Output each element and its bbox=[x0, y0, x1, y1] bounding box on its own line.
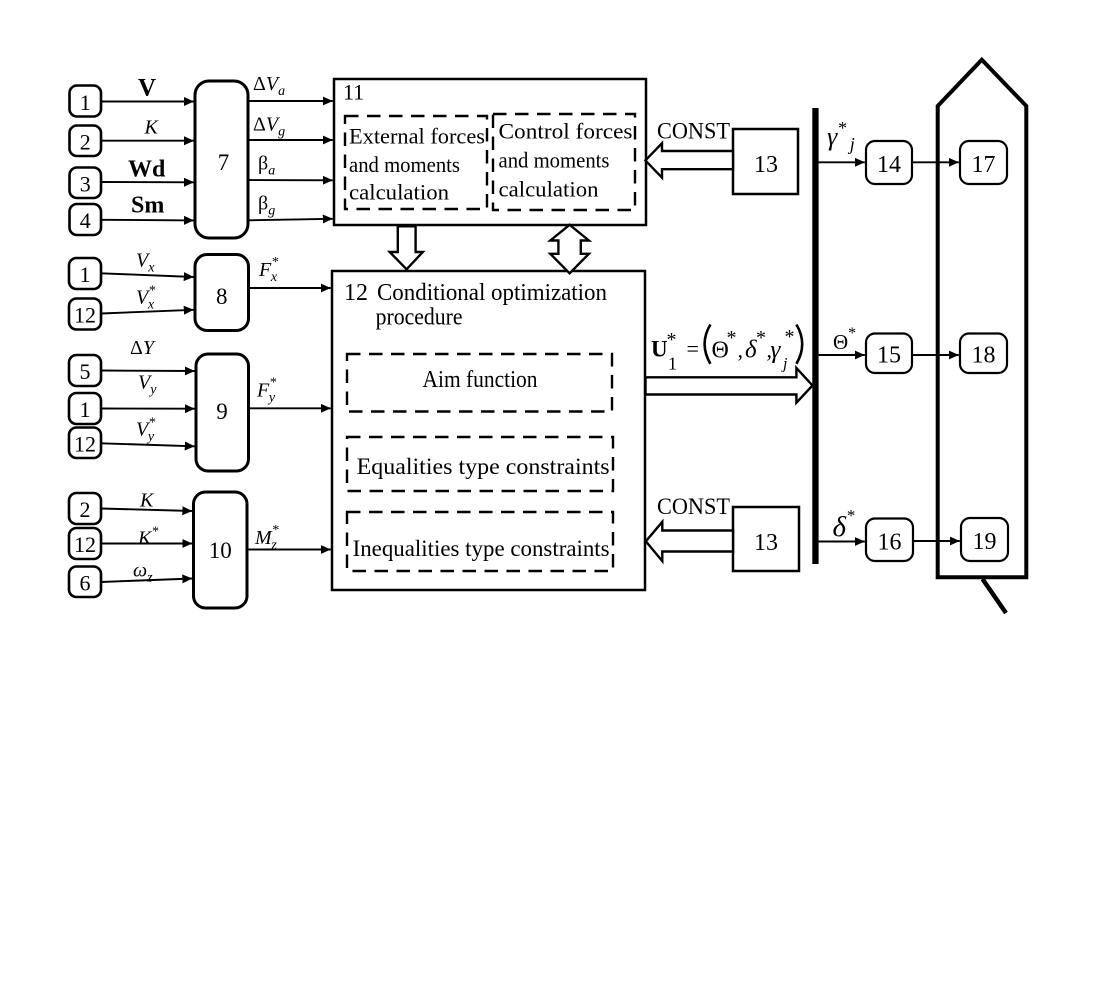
svg-text:δ*: δ* bbox=[833, 506, 855, 543]
svg-text:U: U bbox=[651, 337, 668, 362]
svg-text:calculation: calculation bbox=[499, 177, 599, 202]
svg-text:Wd: Wd bbox=[128, 157, 166, 183]
svg-text:*: * bbox=[727, 327, 737, 349]
svg-text:*: * bbox=[667, 329, 677, 351]
svg-text:4: 4 bbox=[80, 208, 91, 233]
svg-text:*: * bbox=[756, 327, 766, 349]
svg-text:12: 12 bbox=[74, 532, 96, 557]
svg-text:F*y: F*y bbox=[256, 376, 276, 406]
svg-text:M*z: M*z bbox=[254, 523, 279, 553]
svg-text:12: 12 bbox=[74, 303, 96, 328]
svg-text:12: 12 bbox=[344, 280, 368, 306]
svg-text:,: , bbox=[738, 338, 744, 363]
svg-text:16: 16 bbox=[878, 530, 902, 556]
svg-text:γ*j: γ*j bbox=[827, 118, 855, 154]
svg-text:14: 14 bbox=[877, 152, 901, 178]
svg-text:βg: βg bbox=[258, 193, 275, 219]
svg-text:2: 2 bbox=[80, 130, 91, 155]
svg-text:Vx: Vx bbox=[136, 250, 155, 276]
svg-text:ΔVa: ΔVa bbox=[253, 73, 285, 99]
svg-text:Sm: Sm bbox=[131, 193, 164, 219]
svg-text:13: 13 bbox=[754, 152, 778, 178]
svg-text:procedure: procedure bbox=[376, 305, 463, 331]
svg-text:5: 5 bbox=[80, 359, 91, 384]
svg-text:13: 13 bbox=[754, 530, 778, 556]
svg-text:V*y: V*y bbox=[136, 416, 155, 445]
svg-text:18: 18 bbox=[972, 343, 996, 369]
svg-text:6: 6 bbox=[80, 571, 91, 596]
svg-text:2: 2 bbox=[80, 497, 91, 522]
svg-text:1: 1 bbox=[80, 397, 91, 422]
svg-text:Equalities type constraints: Equalities type constraints bbox=[357, 454, 610, 479]
svg-text:ΔVg: ΔVg bbox=[253, 114, 285, 140]
svg-text:10: 10 bbox=[209, 538, 232, 563]
svg-text:βa: βa bbox=[258, 153, 275, 179]
svg-text:Control forces: Control forces bbox=[499, 119, 633, 144]
svg-text:1: 1 bbox=[80, 90, 91, 115]
svg-text:1: 1 bbox=[668, 354, 677, 374]
svg-text:K: K bbox=[144, 117, 160, 139]
svg-text:and moments: and moments bbox=[349, 152, 460, 177]
svg-text:19: 19 bbox=[973, 529, 997, 555]
svg-text:7: 7 bbox=[218, 150, 230, 175]
svg-text:3: 3 bbox=[80, 172, 91, 197]
svg-text:Conditional optimization: Conditional optimization bbox=[377, 280, 607, 306]
svg-text:Aim function: Aim function bbox=[423, 367, 538, 393]
svg-text:Θ*: Θ* bbox=[833, 325, 856, 354]
svg-text:CONST: CONST bbox=[657, 119, 730, 144]
svg-text:V*x: V*x bbox=[136, 284, 155, 313]
svg-text:*: * bbox=[785, 326, 795, 348]
svg-text:Vy: Vy bbox=[138, 372, 157, 398]
svg-text:External forces: External forces bbox=[349, 124, 485, 149]
svg-text:F*x: F*x bbox=[258, 255, 278, 285]
svg-text:17: 17 bbox=[972, 152, 996, 178]
svg-text:=: = bbox=[687, 336, 699, 361]
svg-text:j: j bbox=[781, 356, 788, 373]
svg-text:calculation: calculation bbox=[349, 180, 449, 205]
svg-text:Inequalities type constraints: Inequalities type constraints bbox=[353, 536, 610, 561]
svg-text:9: 9 bbox=[216, 399, 228, 424]
svg-text:ΔY: ΔY bbox=[130, 337, 156, 359]
svg-text:CONST: CONST bbox=[657, 494, 730, 519]
svg-text:V: V bbox=[138, 75, 156, 102]
svg-text:11: 11 bbox=[343, 80, 364, 105]
svg-text:and moments: and moments bbox=[499, 148, 610, 173]
svg-text:8: 8 bbox=[216, 284, 228, 309]
svg-text:K: K bbox=[139, 490, 155, 512]
svg-text:15: 15 bbox=[877, 343, 901, 369]
svg-text:1: 1 bbox=[80, 262, 91, 287]
svg-text:γ: γ bbox=[771, 337, 782, 364]
svg-text:12: 12 bbox=[74, 432, 96, 457]
svg-text:K*: K* bbox=[137, 525, 158, 550]
